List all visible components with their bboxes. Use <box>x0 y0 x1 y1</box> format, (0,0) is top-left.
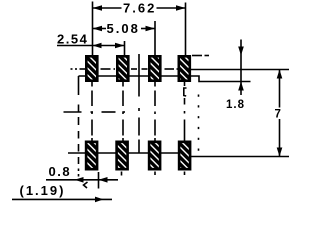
pad bottom-3 <box>149 142 160 169</box>
svg-text:7: 7 <box>275 109 281 121</box>
stub below bottom pad2 <box>121 172 123 176</box>
extension line pad4 center (ref for 7.62) <box>185 3 187 56</box>
pad top-1 <box>86 56 97 80</box>
dimension line 2.54 (leader under text + span) <box>57 45 125 47</box>
svg-text:5.08: 5.08 <box>107 21 140 36</box>
extension line pad1 center (ref for 7.62/5.08/2.54) <box>92 2 94 56</box>
pads: top row <box>86 56 190 169</box>
pad top-3 <box>149 56 160 80</box>
arrow 1.8 bottom (points up) <box>238 82 244 91</box>
extension line below bottom pad1 right edge (ref for 0.8/1.19) <box>98 172 100 189</box>
pad column centerline pad4 (between rows) <box>184 82 186 141</box>
scan hook artifact on pad4 column <box>184 88 187 96</box>
component body right edge (dotted) <box>198 95 200 153</box>
dimension line 7 (vertical) <box>279 70 281 108</box>
arrow 2.54 left <box>93 43 102 48</box>
top centerline solid extension right of pad4 (ref for 7/1.8) <box>191 69 289 71</box>
component body top edge line <box>79 76 251 82</box>
pad bottom-4 <box>179 142 190 169</box>
svg-text:2.54: 2.54 <box>57 32 88 47</box>
dimension line 5.08 <box>93 28 107 30</box>
svg-text:1.8: 1.8 <box>226 99 245 111</box>
pad column centerline pad2 (between rows) <box>122 82 124 141</box>
pad top-2 <box>117 56 128 80</box>
pad top-4 <box>179 56 190 80</box>
pad column centerline pad1 (between rows) <box>91 82 93 141</box>
extension line pad3 center (ref for 5.08) <box>154 21 156 55</box>
dash-dot extension at pad-top level right of pad4 (ref for 1.8) <box>192 55 202 57</box>
dimension line 1.8 (vertical) <box>240 40 242 96</box>
top row centerline dash-dot y=69 <box>71 68 73 70</box>
bottom row centerline solid extension right of pad4 (ref for 7) <box>191 156 289 158</box>
arrow 2.54 right <box>115 43 125 48</box>
component body bottom edge line <box>68 152 191 154</box>
dimension line 0.8 <box>46 179 118 181</box>
stub below bottom pad4 <box>184 172 186 176</box>
arrow 7 top (points up) <box>277 70 283 79</box>
arrow 1.8 top (points down) <box>238 47 244 56</box>
component body left edge (dashed) <box>78 76 80 177</box>
small tick mark near 0.8 arrows <box>84 182 88 188</box>
vertical pattern center axis dash-dot x=139 <box>138 54 140 153</box>
svg-text:0.8: 0.8 <box>49 164 72 179</box>
pad bottom-1 <box>86 142 97 169</box>
stub below bottom pad3 <box>154 172 156 176</box>
arrow 5.08 right <box>146 26 156 32</box>
arrowheads <box>75 5 283 202</box>
arrow 0.8 left (points left) <box>75 177 84 183</box>
dimension line 7.62 <box>93 7 122 9</box>
dimension line (1.19) <box>12 198 112 200</box>
pad column centerline pad3 (between rows) <box>154 82 156 141</box>
arrow 7 bottom (points down) <box>277 148 283 157</box>
arrow 7.62 right <box>176 5 186 11</box>
arrow 0.8 right (points left at pad edge) <box>99 177 108 183</box>
arrow 7.62 left <box>93 5 103 11</box>
arrow 5.08 left <box>93 26 103 32</box>
arrow 1.19 (points right) <box>95 197 104 203</box>
horizontal pattern center axis dash-dot y=112 <box>64 111 82 113</box>
pad bottom-2 <box>117 142 128 169</box>
extension line pad2 center (ref for 2.54) <box>124 41 126 55</box>
svg-text:(1.19): (1.19) <box>20 183 66 198</box>
svg-text:7.62: 7.62 <box>123 1 156 16</box>
